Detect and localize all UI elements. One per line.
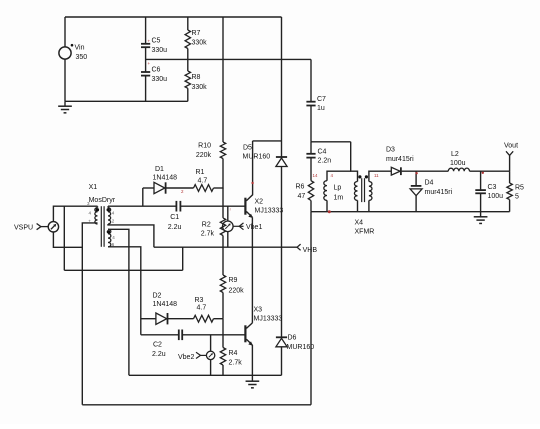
pin number 2 (X1 sec1) — [112, 219, 115, 224]
value 2.2u (C1) — [168, 224, 182, 231]
capacitor C5 — [141, 44, 150, 47]
svg-text:D5: D5 — [243, 145, 252, 152]
wire D5 top (top rail down) — [281, 17, 283, 157]
wire VSPU bottom lead — [53, 232, 82, 247]
value 330k (R7) — [192, 40, 208, 47]
node R1/R10 junction — [222, 187, 224, 188]
value 47 (R6) — [298, 193, 306, 200]
svg-text:Vin: Vin — [75, 45, 85, 52]
wire Lp top — [327, 171, 351, 181]
wire C2 lead — [141, 334, 179, 336]
wire C7 bottom — [310, 106, 312, 142]
resistor R2 — [220, 218, 225, 236]
node tank bottom junction — [328, 210, 331, 213]
svg-text:X1: X1 — [89, 184, 98, 191]
svg-text:100u: 100u — [450, 160, 466, 167]
wire R3 to junction — [214, 318, 224, 320]
source VSPU connector arrow — [37, 224, 49, 230]
wire left drop from VSPU top wire — [63, 206, 65, 270]
label R10 — [198, 143, 211, 150]
value MJ13333 (X3) — [254, 316, 283, 323]
transformer X4 secondary winding — [369, 182, 372, 201]
capacitor C3 — [475, 190, 486, 193]
resistor R3 — [194, 315, 214, 322]
wire D5-D6 — [281, 167, 283, 338]
wire C4-R6 — [310, 158, 312, 181]
wire riser to VHB — [182, 247, 184, 270]
probe Vbe2 arrow — [196, 352, 206, 358]
value 1N4148 (D2) — [153, 301, 178, 308]
diode D5 — [276, 157, 287, 167]
label R5 — [515, 185, 524, 192]
wire R4 bottom — [222, 365, 224, 375]
resistor R8 — [185, 71, 190, 88]
svg-text:C6: C6 — [152, 67, 161, 74]
pin number 4 (Lp) — [331, 173, 334, 178]
wire C7 top — [310, 59, 312, 101]
polarity dot X1 primary — [96, 208, 99, 211]
wire C6 bottom — [145, 76, 147, 102]
resistor R6 — [308, 181, 313, 201]
inductor L2 — [448, 168, 469, 171]
svg-text:Vout: Vout — [504, 143, 518, 150]
svg-text:R7: R7 — [192, 30, 201, 37]
wire x311 drop to bottom rail — [310, 212, 312, 405]
label D3 — [386, 147, 395, 154]
svg-text:1m: 1m — [334, 195, 344, 202]
diode D3 — [391, 167, 401, 175]
wire X4 primary top lead — [351, 142, 358, 182]
label D6 — [288, 335, 297, 342]
pin number 6 (X1 sec2) — [112, 242, 115, 247]
value 100u (C3) — [488, 193, 504, 200]
node base junction — [230, 207, 232, 212]
wire primary bottom lead — [82, 223, 97, 405]
resistor R9 — [220, 275, 225, 293]
value 100u (L2) — [450, 160, 466, 167]
svg-text:R1: R1 — [196, 169, 205, 176]
resistor R7 — [185, 30, 190, 49]
label C5 — [152, 38, 161, 45]
value 1u (C7) — [317, 105, 325, 112]
transformer X1 primary winding — [95, 208, 98, 224]
svg-text:MUR160: MUR160 — [243, 154, 271, 161]
wire mid rail (cap/resistor midpoint to C7) — [146, 58, 311, 60]
svg-text:X4: X4 — [355, 220, 364, 227]
svg-text:D6: D6 — [288, 335, 297, 342]
svg-text:mur415ri: mur415ri — [425, 189, 453, 196]
wire C5 branch top — [145, 17, 147, 44]
wire tank bottom rail — [311, 211, 510, 213]
svg-text:R8: R8 — [192, 74, 201, 81]
pin number 11 (X4) — [374, 173, 379, 178]
label C4 — [318, 149, 327, 156]
svg-text:100u: 100u — [488, 193, 504, 200]
svg-text:+: + — [148, 39, 151, 44]
ground (X3 emitter) — [246, 375, 260, 388]
capacitor C2 — [179, 330, 182, 341]
diode D2 — [156, 313, 168, 324]
svg-text:X3: X3 — [254, 307, 263, 314]
wire Lp bottom — [326, 200, 328, 211]
capacitor C1 — [176, 201, 180, 212]
wire main vertical top (to R10) — [222, 17, 224, 142]
pin mark + (X1 primary) — [88, 219, 91, 224]
wire X2 emitter to X3 collector — [251, 217, 253, 323]
wire X1 sec1 bottom lead — [108, 224, 154, 247]
label D2 — [153, 292, 162, 299]
svg-text:R4: R4 — [229, 350, 238, 357]
transformer X4 core — [362, 178, 365, 202]
value 5 (R5) — [515, 194, 519, 201]
label MosDryr — [89, 197, 116, 204]
label X3 — [254, 307, 263, 314]
wire L2 to Vout node — [470, 170, 510, 172]
label C3 — [488, 184, 497, 191]
svg-text:MJ13333: MJ13333 — [255, 208, 284, 215]
ground (Vin) — [58, 101, 72, 113]
value MUR160 (D6) — [287, 344, 315, 351]
svg-text:VSPU: VSPU — [14, 225, 33, 232]
svg-text:D1: D1 — [155, 166, 164, 173]
svg-text:D3: D3 — [386, 147, 395, 154]
pin mark (X2 collector) — [251, 182, 253, 184]
wire R6 bottom — [310, 201, 312, 212]
svg-text:R2: R2 — [202, 221, 211, 228]
wire R2 bottom — [222, 236, 224, 248]
wire D2 branch — [141, 318, 156, 320]
wire X1 sec2 top lead — [108, 229, 129, 375]
pin number 2 (D1 cathode) — [181, 189, 184, 194]
label R3 — [195, 297, 204, 304]
svg-text:330u: 330u — [152, 76, 168, 83]
pin number 4 (X1 primary) — [89, 211, 92, 216]
wire X4 secondary top lead — [369, 171, 391, 181]
wire lower horizontal return — [64, 269, 182, 271]
label R9 — [229, 277, 238, 284]
svg-text:2.2n: 2.2n — [318, 158, 332, 165]
label VSPU — [14, 225, 33, 232]
value 1N4148 (D1) — [153, 175, 178, 182]
wire Vbe2 bottom — [210, 360, 212, 376]
svg-text:1N4148: 1N4148 — [153, 175, 178, 182]
label Vbe2 — [178, 354, 194, 361]
transformer X1 core — [101, 206, 104, 247]
polarity dot X1 secondary1 — [107, 208, 110, 211]
wire Vin top lead — [64, 17, 66, 47]
capacitor C7 — [306, 102, 315, 106]
wire C3 bottom lead — [480, 193, 482, 211]
value 220k (R9) — [229, 288, 245, 295]
svg-text:2.7k: 2.7k — [229, 360, 243, 367]
transformer X4 primary winding — [354, 182, 357, 201]
wire R7-R8 — [187, 49, 189, 72]
label XFMR — [355, 229, 375, 236]
label R1 — [196, 169, 205, 176]
resistor R1 — [194, 185, 214, 192]
wire Vbe2 top — [210, 335, 212, 351]
svg-text:14: 14 — [313, 173, 319, 178]
wire C5-C6 — [145, 47, 147, 72]
value 330u (C6) — [152, 76, 168, 83]
svg-text:R6: R6 — [296, 184, 305, 191]
svg-text:11: 11 — [374, 173, 379, 178]
label R7 — [192, 30, 201, 37]
wire D1-R1 — [166, 187, 194, 189]
polarity dot X4 secondary — [365, 175, 368, 178]
wire X3 emitter down — [251, 345, 253, 375]
wire R8 bottom — [187, 88, 189, 101]
value 4.7 (R1) — [198, 178, 208, 185]
value MJ13333 (X2) — [255, 208, 284, 215]
label Vin — [75, 45, 85, 52]
wire D1 branch drop — [143, 188, 154, 206]
pin number 3 (X1) — [87, 201, 90, 206]
label VHB — [303, 247, 318, 254]
value 2.2u (C2) — [152, 351, 166, 358]
label R4 — [229, 350, 238, 357]
probe Vbe1 arrow — [233, 223, 243, 230]
wire lower rail — [129, 374, 282, 376]
svg-text:5: 5 — [515, 194, 519, 201]
svg-text:2.2u: 2.2u — [152, 351, 166, 358]
label D4 — [425, 180, 434, 187]
wire C2 to X3 base — [182, 334, 244, 336]
wire X4 secondary bottom lead — [368, 200, 370, 211]
polarity dot X1 secondary2 — [107, 230, 110, 233]
svg-text:D2: D2 — [153, 292, 162, 299]
pin mark + (C5) — [148, 39, 151, 44]
wire Vbe1 branch bottom — [227, 232, 229, 248]
wire bottom rail — [65, 100, 188, 102]
label Vbe1 — [246, 224, 262, 231]
svg-text:D4: D4 — [425, 180, 434, 187]
svg-text:MUR160: MUR160 — [287, 344, 315, 351]
wire VSPU top lead — [53, 206, 97, 221]
svg-text:+: + — [148, 61, 151, 66]
value 2.7k (R2) — [201, 231, 215, 238]
wire R7 top lead — [187, 17, 189, 30]
svg-text:R5: R5 — [515, 185, 524, 192]
label R2 — [202, 221, 211, 228]
resistor R4 — [220, 348, 225, 366]
wire primary top stub — [97, 206, 99, 208]
capacitor C4 top lead — [310, 142, 312, 154]
wire bottom long rail — [82, 404, 311, 406]
svg-text:mur415ri: mur415ri — [386, 156, 414, 163]
source VSPU — [48, 222, 58, 232]
pin number 4 (X1 sec1) — [112, 211, 115, 216]
svg-text:C2: C2 — [153, 342, 162, 349]
diode D4 — [410, 186, 422, 196]
value MUR160 (D5) — [243, 154, 271, 161]
label C7 — [317, 96, 326, 103]
diode D6 — [276, 337, 287, 347]
svg-text:C7: C7 — [317, 96, 326, 103]
voltage source Vin — [59, 44, 73, 59]
label Lp — [334, 185, 342, 192]
label X4 — [355, 220, 364, 227]
svg-text:330k: 330k — [192, 84, 208, 91]
value 2.2n (C4) — [318, 158, 332, 165]
value mur415ri (D4) — [425, 189, 453, 196]
node VHB/emitter junction — [251, 247, 253, 248]
svg-text:VHB: VHB — [303, 247, 318, 254]
wire R5 bottom lead — [509, 200, 511, 212]
pin number 4 (X1 sec2) — [112, 235, 115, 240]
svg-text:Vbe1: Vbe1 — [246, 224, 262, 231]
wire R5 top lead — [509, 171, 511, 183]
wire R1 to junction — [214, 187, 224, 189]
label X2 — [255, 199, 264, 206]
value 220k (R10) — [196, 152, 212, 159]
transistor X2 collector — [246, 141, 252, 201]
value mur415ri (D3) — [386, 156, 414, 163]
svg-text:220k: 220k — [196, 152, 212, 159]
svg-text:330u: 330u — [152, 47, 168, 54]
wire Vbe1 branch top — [227, 206, 229, 221]
diode D1 — [154, 182, 166, 193]
transformer X1 secondary 2 winding — [108, 229, 111, 247]
svg-text:C1: C1 — [170, 214, 179, 221]
svg-text:R3: R3 — [195, 297, 204, 304]
wire Vin bottom lead — [64, 59, 66, 101]
pin mark + (C6) — [148, 61, 151, 66]
wire D4 top lead — [415, 171, 417, 186]
transformer X1 secondary 1 winding — [108, 208, 111, 224]
node VHB arrow — [297, 244, 301, 250]
value 350 — [76, 54, 88, 61]
svg-text:2.2u: 2.2u — [168, 224, 182, 231]
value 1m (Lp) — [334, 195, 344, 202]
wire X2 collector to D5 node — [253, 140, 282, 142]
wire Vout stem — [509, 155, 511, 171]
wire X1 sec2 bottom lead — [108, 247, 141, 335]
label L2 — [451, 151, 459, 158]
wire D4 bottom lead — [415, 196, 417, 212]
label D1 — [155, 166, 164, 173]
transistor X3 collector — [246, 323, 252, 329]
value 330u (C5) — [152, 47, 168, 54]
wire tank top node — [311, 141, 351, 143]
label X1 — [89, 184, 98, 191]
svg-text:C4: C4 — [318, 149, 327, 156]
svg-text:220k: 220k — [229, 288, 245, 295]
svg-text:4.7: 4.7 — [197, 304, 207, 311]
wire X1 sec1 top to C1 — [108, 206, 176, 208]
node C3 top — [482, 172, 484, 174]
svg-text:350: 350 — [76, 54, 88, 61]
svg-text:Vbe2: Vbe2 — [178, 354, 194, 361]
wire VHB to R9 — [222, 247, 224, 275]
value 2.7k (R4) — [229, 360, 243, 367]
resistor R5 — [507, 183, 512, 200]
svg-text:X2: X2 — [255, 199, 264, 206]
wire X4 primary bottom lead — [357, 200, 359, 211]
svg-text:C5: C5 — [152, 38, 161, 45]
label R6 — [296, 184, 305, 191]
transistor X2 emitter — [246, 212, 253, 219]
wire R10 to base node — [222, 159, 224, 207]
label C1 — [170, 214, 179, 221]
value 330k (R8) — [192, 84, 208, 91]
inductor Lp — [324, 181, 327, 201]
svg-text:1u: 1u — [317, 105, 325, 112]
label C6 — [152, 67, 161, 74]
wire junction to X3 base level — [222, 319, 224, 348]
svg-text:MosDryr: MosDryr — [89, 197, 116, 204]
svg-text:L2: L2 — [451, 151, 459, 158]
label C2 — [153, 342, 162, 349]
wire top rail — [65, 16, 282, 18]
transistor X3 base bar — [244, 325, 246, 342]
wire C3 top lead — [480, 171, 482, 190]
svg-text:R9: R9 — [229, 277, 238, 284]
label D5 — [243, 145, 252, 152]
wire D2-R3 — [168, 318, 194, 320]
wire R9 to D2 junction — [222, 293, 224, 319]
svg-text:C3: C3 — [488, 184, 497, 191]
resistor R10 — [220, 142, 225, 159]
pin number 14 (C4) — [313, 173, 319, 178]
probe Vbe2 — [206, 351, 214, 359]
wire VHB rail — [154, 246, 297, 248]
capacitor C4 — [306, 154, 315, 158]
node Vout arrow — [506, 151, 513, 155]
label Vout — [504, 143, 518, 150]
transistor X2 base bar — [244, 198, 246, 215]
ground (output) — [474, 212, 488, 224]
svg-text:47: 47 — [298, 193, 306, 200]
svg-text:R10: R10 — [198, 143, 211, 150]
svg-text:2.7k: 2.7k — [201, 231, 215, 238]
value 4.7 (R3) — [197, 304, 207, 311]
svg-text:XFMR: XFMR — [355, 229, 375, 236]
wire D3 to L2 — [402, 170, 449, 172]
wire C1 to X2 base — [180, 205, 244, 207]
wire R2 top — [222, 206, 224, 218]
label R8 — [192, 74, 201, 81]
svg-text:4.7: 4.7 — [198, 178, 208, 185]
svg-text:330k: 330k — [192, 40, 208, 47]
capacitor C6 — [141, 72, 150, 76]
probe Vbe1 — [223, 221, 234, 232]
svg-text:1N4148: 1N4148 — [153, 301, 178, 308]
svg-text:MJ13333: MJ13333 — [254, 316, 283, 323]
svg-text:Lp: Lp — [334, 185, 342, 192]
polarity dot X4 primary — [358, 175, 361, 178]
transistor X3 emitter — [246, 339, 253, 346]
node D4 top — [415, 172, 417, 174]
wire D6 bottom — [281, 347, 283, 376]
